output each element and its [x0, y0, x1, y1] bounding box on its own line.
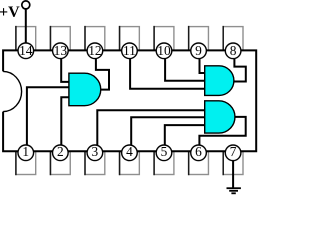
svg-text:12: 12: [88, 43, 101, 58]
pin 12 lead: [85, 26, 105, 51]
AND gate U1A (inputs 1,2,13 output 12): [69, 73, 101, 106]
pin 4 number: [122, 144, 138, 161]
IC body U1 (DIP-14 outline with notch): [3, 50, 256, 151]
svg-text:+V: +V: [0, 4, 20, 21]
svg-text:1: 1: [22, 144, 29, 159]
pin 2 lead: [50, 151, 70, 175]
pin 8 number: [225, 43, 241, 59]
svg-text:5: 5: [161, 144, 168, 159]
wire pin 10 to gate U1C input 2: [165, 58, 205, 81]
+V supply terminal: [22, 1, 30, 9]
pin 11 lead: [120, 26, 140, 51]
pin 1 number: [18, 144, 34, 161]
wire pin 4 to gate U1B input 2: [131, 117, 205, 146]
pin 10 number: [156, 43, 172, 59]
wire gate U1C output to pin 8: [234, 58, 246, 82]
wire pin 3 to gate U1B input 1: [97, 110, 205, 146]
wire pin 2 to gate U1A input 3: [61, 97, 69, 146]
pin 10 lead: [154, 26, 174, 51]
pin 13 number: [53, 43, 69, 59]
pin 8 lead: [223, 26, 243, 51]
svg-text:3: 3: [92, 144, 99, 159]
pin 4 lead: [120, 151, 140, 175]
AND gate U1B (inputs 3,4,5 output 6): [205, 101, 235, 133]
pin 6 number: [191, 144, 207, 161]
AND gate U1C (inputs 9,10,11 output 8): [205, 66, 234, 96]
svg-text:11: 11: [123, 43, 136, 58]
pin 5 number: [156, 144, 172, 161]
svg-text:4: 4: [126, 144, 133, 159]
wire gate U1A output to pin 12: [96, 58, 109, 90]
pin 1 lead: [16, 151, 36, 175]
pin 9 lead: [189, 26, 209, 51]
pin-1 index notch: [3, 71, 22, 111]
+V label: [0, 4, 20, 21]
pin 11 number: [122, 43, 138, 59]
wire pin 11 to gate U1C input 3: [130, 58, 205, 89]
pin 7 lead: [223, 151, 243, 175]
svg-text:10: 10: [157, 43, 171, 58]
wire pin 9 to gate U1C input 1: [200, 58, 206, 73]
pin 12 number: [87, 43, 103, 59]
pin 6 lead: [189, 151, 209, 175]
svg-text:9: 9: [195, 43, 202, 58]
svg-text:14: 14: [19, 43, 33, 58]
wire pin 5 to gate U1B input 3: [165, 125, 206, 146]
wire pin 13 to gate U1A input 1: [61, 58, 69, 82]
pin 2 number: [53, 144, 69, 161]
svg-text:13: 13: [54, 43, 68, 58]
pin 14 number: [18, 43, 34, 59]
wire pin 1 to gate U1A input 2: [27, 87, 70, 146]
pin 3 number: [87, 144, 103, 161]
pin 7 number: [225, 144, 241, 161]
svg-text:2: 2: [57, 144, 64, 159]
svg-text:8: 8: [230, 43, 237, 58]
pin 3 lead: [85, 151, 105, 175]
ground symbol: [227, 187, 241, 189]
ground wire from pin 7: [232, 160, 234, 188]
pin 13 lead: [50, 26, 70, 51]
pin 9 number: [191, 43, 207, 59]
pin 14 lead: [16, 26, 36, 51]
wire gate U1B output to pin 6: [199, 117, 245, 147]
svg-text:7: 7: [230, 144, 237, 159]
pin 5 lead: [154, 151, 174, 175]
svg-text:6: 6: [195, 144, 202, 159]
wire +V to pin 14: [25, 9, 27, 45]
